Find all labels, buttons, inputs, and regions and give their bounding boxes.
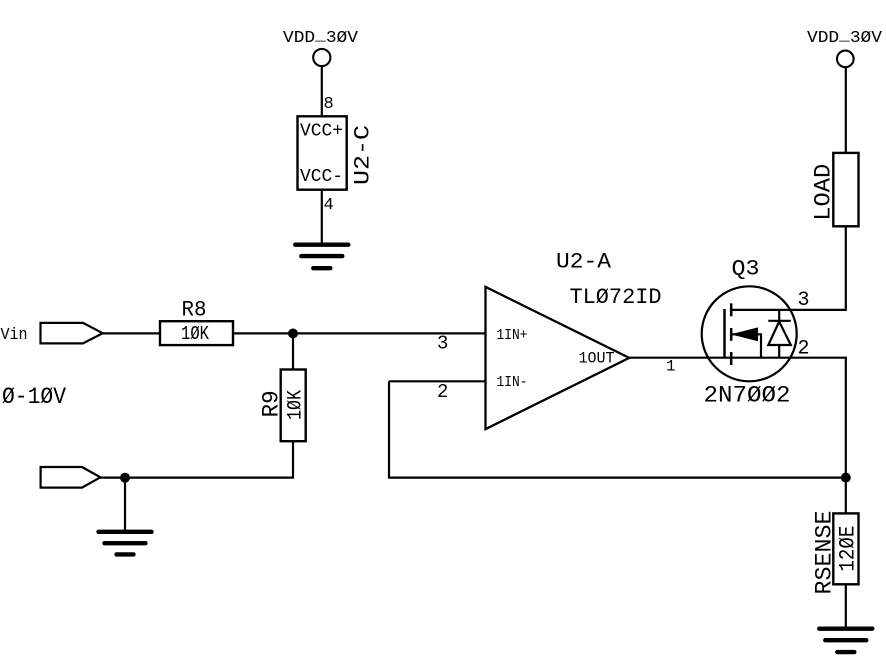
input port (bottom reference): [41, 467, 101, 488]
resistor RSENSE: [833, 513, 858, 584]
drain lead: [731, 226, 846, 310]
svg-text:2: 2: [798, 338, 810, 361]
svg-text:12ØE: 12ØE: [836, 526, 861, 572]
svg-text:VCC-: VCC-: [300, 167, 343, 187]
resistor LOAD: [833, 153, 858, 226]
channel segment (source): [730, 352, 733, 365]
power symbol VDD_30V (left): [313, 49, 330, 66]
wire junction to ground: [124, 478, 126, 530]
channel segment (body): [730, 328, 733, 341]
body diode triangle: [768, 322, 791, 346]
wire source to sense junction: [845, 358, 847, 514]
svg-text:4: 4: [324, 196, 334, 215]
ground (bottom left): [99, 532, 152, 555]
wire RSENSE to ground: [845, 584, 847, 627]
op-amp supply block U2-C: [298, 116, 347, 189]
svg-text:Vin: Vin: [1, 326, 28, 345]
input port Vin: [41, 323, 103, 344]
svg-text:R8: R8: [182, 297, 207, 322]
svg-text:VDD_3ØV: VDD_3ØV: [283, 27, 359, 49]
channel segment (drain): [730, 303, 733, 316]
wire U2-C to ground: [321, 190, 323, 243]
junction node at bottom port: [120, 473, 130, 483]
feedback wire to sense node: [389, 381, 846, 477]
wire op-amp output to gate / source rail: [629, 357, 847, 359]
resistor R8: [160, 321, 233, 345]
substrate arrow: [733, 328, 758, 341]
svg-text:U2-A: U2-A: [556, 250, 612, 275]
svg-text:LOAD: LOAD: [811, 164, 837, 221]
junction node at R8/R9: [288, 329, 298, 339]
ground (under U2-C): [295, 245, 348, 269]
op-amp U2-A: [486, 287, 630, 429]
svg-text:Q3: Q3: [732, 257, 760, 282]
svg-text:1IN+: 1IN+: [497, 327, 528, 344]
junction node at sense: [841, 473, 851, 483]
svg-text:3: 3: [437, 333, 448, 355]
svg-text:1IN-: 1IN-: [497, 374, 528, 391]
transistor Q3 body circle: [702, 286, 797, 381]
svg-text:TLØ72ID: TLØ72ID: [570, 285, 662, 310]
svg-text:1ØK: 1ØK: [181, 323, 209, 345]
svg-text:1: 1: [666, 357, 676, 375]
svg-text:R9: R9: [259, 390, 285, 417]
svg-text:VCC+: VCC+: [300, 122, 343, 142]
svg-text:8: 8: [324, 95, 334, 114]
body diode anode lead: [778, 345, 780, 358]
wire Vin to R8: [103, 332, 160, 334]
svg-text:VDD_3ØV: VDD_3ØV: [807, 27, 883, 49]
wire R9 to bottom rail: [100, 441, 293, 477]
svg-text:RSENSE: RSENSE: [812, 511, 838, 595]
wire R8 to op-amp non-inverting input: [233, 332, 486, 334]
wire to op-amp inverting input: [389, 380, 486, 382]
svg-text:Ø-1ØV: Ø-1ØV: [2, 384, 66, 411]
svg-text:U2-C: U2-C: [351, 125, 376, 185]
wire power to LOAD: [845, 67, 847, 153]
svg-text:3: 3: [798, 289, 810, 312]
power symbol VDD_30V (right): [837, 51, 854, 68]
svg-text:1OUT: 1OUT: [579, 350, 615, 368]
substrate connection: [733, 334, 762, 357]
resistor R9: [281, 370, 306, 442]
svg-text:1ØK: 1ØK: [285, 390, 308, 420]
body diode cathode bar: [768, 320, 791, 322]
ground (bottom right): [819, 629, 872, 652]
wire junction to R9: [292, 334, 294, 370]
svg-text:2N7ØØ2: 2N7ØØ2: [704, 383, 791, 409]
gate bar: [723, 309, 726, 358]
wire power to U2-C supply box: [321, 66, 323, 116]
body diode cathode lead: [778, 310, 780, 321]
svg-text:2: 2: [437, 381, 448, 403]
